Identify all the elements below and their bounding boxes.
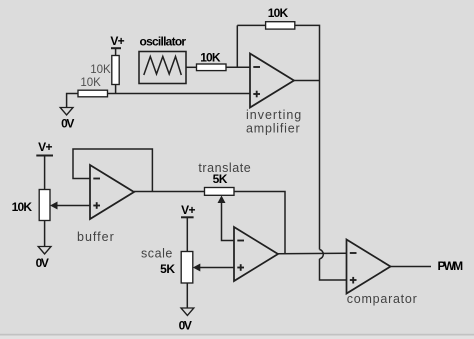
- wire (feedback left vertical): [236, 25, 238, 67]
- wire (buffer output to translate pot): [134, 191, 205, 193]
- wire (junction to inverting amp + input): [108, 93, 251, 95]
- svg-text:0V: 0V: [179, 319, 192, 333]
- svg-text:oscillator: oscillator: [140, 35, 187, 49]
- wire: [115, 48, 117, 55]
- svg-text:inverting: inverting: [246, 108, 302, 122]
- node V+ (scale pot supply): [181, 203, 195, 217]
- wire (hop over horizontal wire): [320, 250, 324, 259]
- svg-text:V+: V+: [181, 203, 195, 217]
- wire: [44, 221, 46, 247]
- svg-text:5K: 5K: [160, 262, 175, 276]
- wire (translate wiper to middle amp - input): [222, 200, 235, 241]
- wire: [186, 283, 188, 308]
- wire (buffer feedback loop): [73, 149, 152, 192]
- ground: [60, 108, 74, 131]
- wire: [237, 24, 265, 26]
- wire: [186, 66, 197, 68]
- wire: [186, 217, 188, 251]
- wire (comparator output): [391, 266, 432, 268]
- svg-text:comparator: comparator: [347, 292, 418, 306]
- resistor 10K (horizontal, to ground): [78, 77, 108, 97]
- svg-text:0V: 0V: [36, 256, 49, 270]
- ground: [36, 247, 51, 271]
- node V+ (top-left supply): [110, 34, 124, 48]
- wire (middle amp output to comparator - input): [278, 252, 347, 255]
- op-amp U4 comparator: [347, 240, 418, 307]
- wire: [115, 85, 117, 94]
- svg-text:5K: 5K: [213, 172, 228, 186]
- svg-text:10K: 10K: [90, 64, 111, 76]
- resistor 10K (oscillator output): [197, 51, 227, 71]
- svg-text:amplifier: amplifier: [246, 122, 300, 136]
- node V+ (buffer pot supply): [36, 140, 53, 156]
- wire: [44, 156, 46, 190]
- ground: [179, 308, 194, 333]
- potentiometer 5K translate: [198, 161, 251, 203]
- svg-text:V+: V+: [38, 140, 52, 154]
- svg-text:V+: V+: [110, 34, 124, 48]
- op-amp U1 inverting amplifier: [246, 54, 302, 136]
- wire (scale wiper to middle amp + input): [198, 267, 234, 269]
- svg-text:buffer: buffer: [77, 230, 115, 244]
- svg-text:0V: 0V: [61, 117, 74, 131]
- wire (pot wiper to buffer + input): [55, 205, 90, 207]
- op-amp U3 (scale/translate stage): [234, 227, 278, 281]
- resistor 10K (vertical, to V+): [90, 56, 119, 85]
- wire: [67, 94, 78, 108]
- bottom window edge line: [0, 334, 474, 336]
- wire: [295, 25, 320, 249]
- svg-text:PWM: PWM: [438, 259, 464, 273]
- op-amp U2 buffer: [77, 165, 134, 244]
- potentiometer 10K: [12, 190, 58, 221]
- svg-text:10K: 10K: [80, 77, 101, 89]
- potentiometer 5K scale: [141, 247, 200, 284]
- svg-text:10K: 10K: [200, 51, 221, 65]
- wire (inverting amp output): [294, 80, 319, 82]
- svg-text:scale: scale: [141, 247, 173, 261]
- wire: [320, 259, 347, 280]
- svg-text:10K: 10K: [268, 6, 289, 20]
- wire (translate right end down to middle amp output): [234, 192, 285, 254]
- oscillator block: [139, 35, 186, 84]
- svg-text:10K: 10K: [12, 200, 33, 214]
- resistor 10K (feedback): [266, 6, 295, 29]
- wire: [226, 66, 250, 68]
